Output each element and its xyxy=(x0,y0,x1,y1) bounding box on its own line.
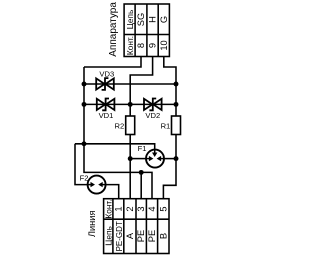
node ground / pin3 xyxy=(139,170,144,175)
wires xyxy=(75,57,176,199)
wire R1 bottom to F1 xyxy=(175,135,177,159)
svg-text:SG: SG xyxy=(136,13,146,26)
wire F1 right xyxy=(164,158,176,160)
node left rail / ground row xyxy=(82,141,87,146)
wire pin10 to right rail xyxy=(164,57,176,117)
wire F1 left xyxy=(130,158,146,160)
node VD1-VD2 / R2 xyxy=(128,102,133,107)
wire ground to pin3 xyxy=(140,172,142,198)
svg-text:8: 8 xyxy=(136,43,146,48)
svg-text:VD2: VD2 xyxy=(145,111,160,120)
svg-text:1: 1 xyxy=(114,206,124,211)
wire F1 top electrode to ground rail xyxy=(75,144,155,150)
svg-text:Конт.: Конт. xyxy=(104,199,114,218)
svg-text:PE: PE xyxy=(147,230,157,242)
svg-text:F1: F1 xyxy=(138,144,147,153)
node right rail / VD2 xyxy=(174,102,179,107)
svg-text:PE-GDT: PE-GDT xyxy=(115,221,124,251)
node R1 bottom / F1 right xyxy=(174,156,179,161)
suppressor diode VD2 xyxy=(144,99,162,111)
svg-text:A: A xyxy=(125,232,135,239)
svg-text:PE: PE xyxy=(136,230,146,242)
node right rail / VD3 xyxy=(174,82,179,87)
arrester F2 (2-electrode gas discharge tube) xyxy=(88,176,106,194)
svg-text:VD1: VD1 xyxy=(99,111,114,120)
wire right rail to pin5 xyxy=(163,159,176,199)
arrester F1 (3-electrode gas discharge tube) xyxy=(146,150,164,168)
svg-text:R1: R1 xyxy=(161,121,171,130)
node left rail / VD1 xyxy=(82,102,87,107)
svg-text:3: 3 xyxy=(136,206,146,211)
svg-text:R2: R2 xyxy=(114,121,124,130)
svg-text:VD3: VD3 xyxy=(99,69,114,78)
suppressor diode VD3 xyxy=(96,78,114,90)
suppressor diode VD1 xyxy=(97,99,115,111)
node R2 bottom / F1 left xyxy=(128,156,133,161)
wire to F2 left xyxy=(75,144,88,185)
resistor R1 xyxy=(172,116,181,135)
svg-text:Линия: Линия xyxy=(87,210,97,237)
svg-text:H: H xyxy=(148,16,158,23)
svg-text:2: 2 xyxy=(125,206,135,211)
svg-text:4: 4 xyxy=(147,206,157,211)
node left rail / VD3 xyxy=(82,82,87,87)
svg-text:10: 10 xyxy=(159,40,169,50)
svg-text:B: B xyxy=(158,233,168,239)
svg-text:F2: F2 xyxy=(80,174,89,183)
svg-text:Цепь: Цепь xyxy=(125,10,135,30)
wire R2 bottom to pin2 xyxy=(129,135,131,199)
svg-text:Аппаратура: Аппаратура xyxy=(108,2,119,57)
svg-text:G: G xyxy=(159,16,169,23)
wire F2 right to pin1 xyxy=(106,185,119,199)
connector table XS1 "Аппаратура" grid xyxy=(124,4,169,57)
svg-text:5: 5 xyxy=(158,206,168,211)
wire pin9 to node R2 top xyxy=(130,57,152,117)
svg-text:9: 9 xyxy=(148,43,158,48)
svg-text:Конт.: Конт. xyxy=(125,36,135,55)
wire pin8 to left rail xyxy=(84,57,141,68)
connector table XS2 "Линия" grid xyxy=(104,199,169,254)
resistor R2 xyxy=(126,116,135,135)
wire VD3 row xyxy=(84,83,176,85)
wire VD1 VD2 row xyxy=(84,103,176,105)
wire left rail xyxy=(84,67,152,199)
svg-text:Цепь: Цепь xyxy=(104,226,114,246)
